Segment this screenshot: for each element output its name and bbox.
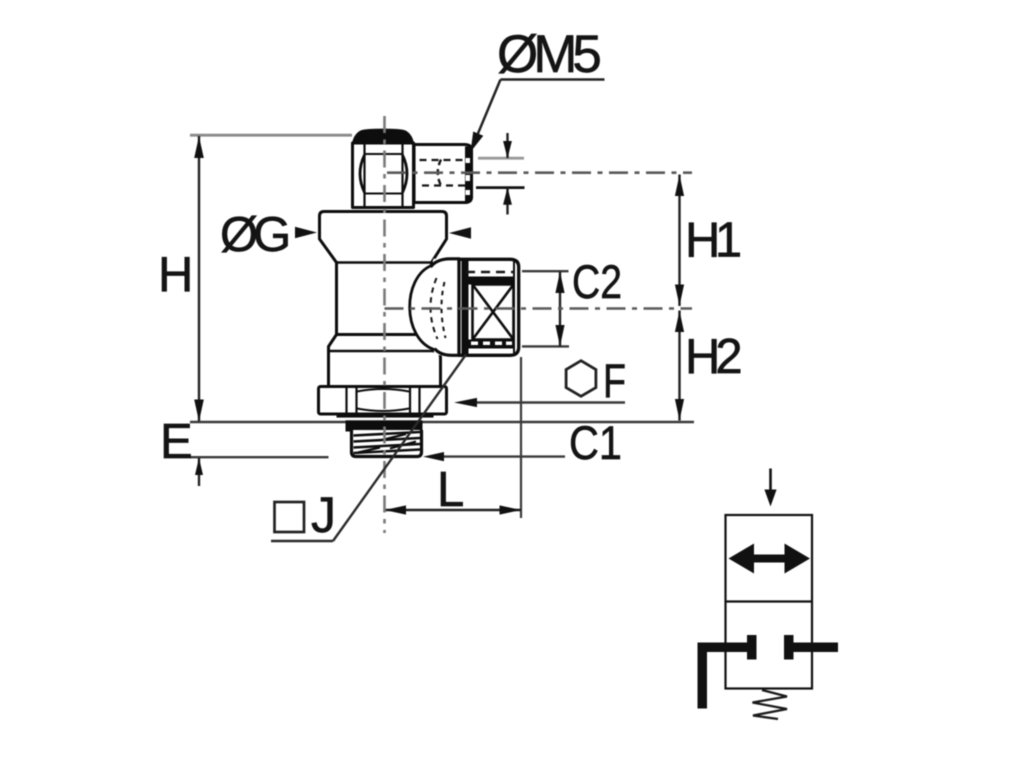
dimension H top arrow	[194, 136, 204, 158]
dimension H line	[198, 136, 200, 422]
extension line at thread start (E top / H2 bottom)	[190, 421, 694, 423]
M5 bore extent lines	[478, 157, 524, 160]
svg-text:C2: C2	[572, 255, 622, 308]
svg-text:H1: H1	[685, 214, 740, 268]
port bottom black band	[469, 340, 514, 349]
cone bottom joint line	[337, 261, 432, 264]
dimension C2 extent lines	[522, 270, 569, 272]
stud top band	[346, 420, 423, 431]
M5 hidden thread dashes	[420, 159, 464, 161]
dimension E arrow (below, pointing up)	[198, 458, 200, 486]
threads	[354, 432, 421, 436]
ØM5 arrowhead	[471, 132, 484, 153]
lower body	[329, 345, 441, 387]
J leader diagonal	[333, 355, 466, 542]
lower body left step	[329, 335, 337, 387]
svg-text:F: F	[603, 354, 626, 407]
svg-text:L: L	[437, 463, 464, 517]
square symbol for J	[275, 502, 305, 532]
svg-text:J: J	[311, 487, 336, 543]
knob barrel left arc	[360, 155, 365, 193]
M5 side port (top)	[414, 145, 472, 203]
boss hidden dashes	[430, 278, 437, 339]
check valve right bar	[784, 635, 794, 660]
dimension C2 line	[559, 272, 561, 347]
dimension L line	[385, 509, 522, 511]
svg-text:C1: C1	[569, 416, 622, 469]
ØM5 leader diagonal	[474, 80, 501, 144]
port top black band	[469, 277, 514, 285]
ØM5 leader underline	[501, 78, 605, 81]
knob black cap	[352, 129, 415, 145]
knob inner right line	[401, 144, 403, 207]
J leader horizontal	[271, 540, 333, 543]
port boss intersection arc	[410, 266, 434, 350]
washer band	[337, 414, 434, 418]
knob barrel right arc	[403, 155, 408, 193]
svg-text:H: H	[158, 248, 193, 302]
port face inner line	[513, 261, 515, 353]
C2 side port tube	[459, 259, 519, 355]
body right edge stub	[430, 262, 433, 267]
threaded stud	[352, 430, 422, 457]
hexagon symbol for F	[566, 361, 596, 397]
check valve left bar	[747, 635, 757, 660]
svg-text:ØG: ØG	[220, 208, 288, 262]
M5 port centerline	[387, 171, 692, 174]
lower body joint line	[329, 350, 434, 353]
svg-text:E: E	[160, 415, 193, 469]
knob inner left line	[363, 144, 365, 207]
ØG arrowheads	[295, 227, 317, 238]
dimension H1 line	[678, 175, 680, 307]
hex nut	[319, 387, 447, 415]
svg-text:ØM5: ØM5	[497, 25, 600, 84]
port boss bottom edge	[435, 349, 461, 356]
vertical body centerline	[383, 116, 386, 533]
nut facet arcs	[357, 389, 409, 392]
check valve left line	[698, 643, 748, 653]
extension line at thread end (E bottom)	[190, 456, 329, 458]
spring	[753, 690, 788, 719]
knob chamfer top	[365, 153, 403, 155]
dimension H2 line	[678, 311, 680, 421]
C2 port centerline	[385, 307, 693, 310]
port hidden bore dashes	[466, 271, 514, 273]
knob chamfer bottom	[365, 193, 403, 195]
dimension F leader	[476, 401, 625, 403]
port cartridge X box	[473, 285, 514, 340]
lower body right edge	[433, 351, 441, 387]
body top flange and cone	[320, 212, 447, 335]
dimension H top extent line	[190, 134, 352, 137]
valve box	[726, 515, 813, 689]
port boss top edge	[431, 259, 461, 267]
dimension H bottom arrow	[194, 400, 204, 422]
M5 bore dimension line with outside arrows	[506, 133, 508, 158]
knob body	[353, 143, 414, 208]
dimension L extension line (port face)	[520, 357, 522, 518]
port collar band	[462, 261, 469, 355]
nut facet lines	[345, 388, 347, 414]
M5 port face band	[465, 147, 471, 202]
flow restrictor double arrow	[729, 544, 811, 574]
check valve right line	[794, 643, 839, 653]
valve actuation arrow	[769, 469, 772, 495]
svg-text:H2: H2	[685, 330, 740, 384]
port boss white area	[410, 259, 462, 356]
valve box divider	[726, 600, 813, 602]
check valve left drop leg	[698, 643, 708, 709]
dimension C1 leader	[443, 455, 565, 457]
